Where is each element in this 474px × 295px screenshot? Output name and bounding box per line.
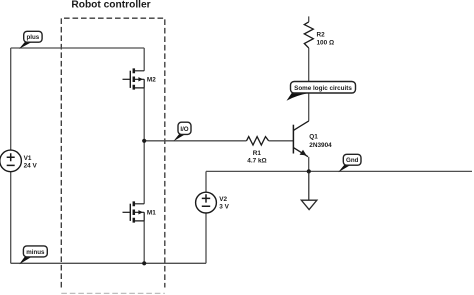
transistor Q1 (NPN 2N3904) xyxy=(293,121,308,157)
svg-text:2N3904: 2N3904 xyxy=(309,142,332,149)
wire: M1 drain vertical xyxy=(143,141,145,204)
resistor R1 xyxy=(247,137,269,145)
MOSFET M1 xyxy=(123,201,145,222)
svg-text:3 V: 3 V xyxy=(219,203,229,210)
wire: Q1 emitter vertical xyxy=(308,157,310,172)
svg-text:Robot controller: Robot controller xyxy=(71,0,150,10)
resistor R2 xyxy=(304,22,313,48)
net flag: plus xyxy=(19,31,42,49)
wire: M2 drain vertical xyxy=(143,48,145,71)
wire: V2 bottom vertical xyxy=(205,213,207,263)
svg-text:R2: R2 xyxy=(317,31,326,38)
svg-text:R1: R1 xyxy=(253,150,262,157)
wire: R2 to Q1 collector xyxy=(308,48,310,121)
wire: M1 source to bottom rail xyxy=(143,221,145,263)
wire: bottom minus rail horizontal xyxy=(11,262,206,264)
wire: left rail upper vertical xyxy=(10,48,12,150)
svg-text:I/O: I/O xyxy=(180,126,188,133)
svg-text:Some logic circuits: Some logic circuits xyxy=(294,85,352,92)
svg-text:V2: V2 xyxy=(219,196,227,203)
ground symbol xyxy=(301,171,317,209)
voltage source V2 xyxy=(196,192,230,213)
svg-text:Q1: Q1 xyxy=(309,133,318,140)
svg-text:24 V: 24 V xyxy=(24,163,38,170)
svg-text:plus: plus xyxy=(27,34,40,41)
wire: left rail lower vertical xyxy=(10,171,12,263)
voltage source V1 xyxy=(0,150,37,172)
junction dot: half-bridge mid node xyxy=(142,139,146,143)
wire: M2 source to mid node xyxy=(143,88,145,141)
junction dot: M1 source on bottom rail xyxy=(142,261,146,265)
svg-text:minus: minus xyxy=(26,249,45,256)
svg-text:M1: M1 xyxy=(147,210,156,217)
svg-text:4.7 kΩ: 4.7 kΩ xyxy=(247,158,266,165)
net flag: Gnd xyxy=(338,154,361,172)
wire: V2 top vertical xyxy=(205,171,207,192)
dashed enclosure box (Robot controller) xyxy=(61,18,165,293)
net flag: Some logic circuits xyxy=(287,82,356,101)
svg-text:V1: V1 xyxy=(24,155,32,162)
svg-text:Gnd: Gnd xyxy=(346,157,359,164)
svg-text:M2: M2 xyxy=(147,77,156,84)
wire: mid node to R1 xyxy=(144,140,246,142)
wire: ground rail horizontal xyxy=(206,170,472,172)
MOSFET M2 xyxy=(123,68,145,89)
junction dot: emitter / ground rail xyxy=(307,169,311,173)
net flag: minus xyxy=(19,246,47,264)
wire: plus rail top horizontal xyxy=(11,47,145,49)
svg-text:100 Ω: 100 Ω xyxy=(317,39,335,46)
wire: R1 to Q1 base xyxy=(269,140,294,142)
net flag: I/O xyxy=(173,122,191,141)
wire: R2 top stub xyxy=(308,16,310,22)
